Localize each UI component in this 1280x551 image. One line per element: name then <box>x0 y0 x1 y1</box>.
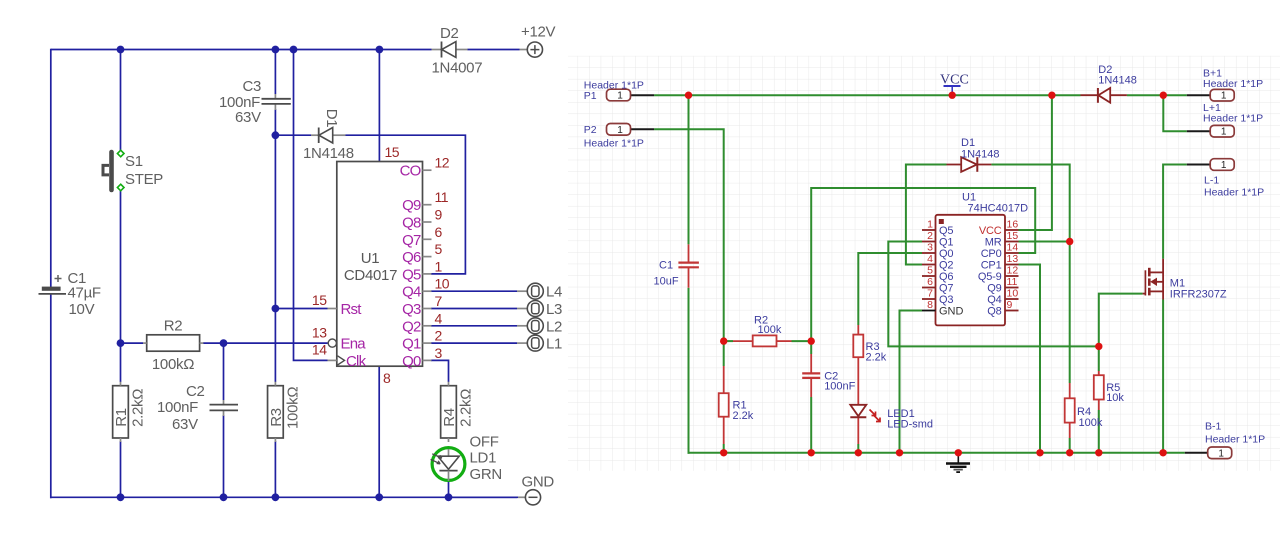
junction (275.4,49.5) <box>272 46 280 54</box>
ground GND <box>518 474 554 505</box>
junction (120.5,49.5) <box>117 46 125 54</box>
svg-text:8: 8 <box>383 370 391 386</box>
svg-text:Q3: Q3 <box>402 301 421 318</box>
pin 13 CP1 <box>981 253 1019 272</box>
svg-text:L1: L1 <box>546 336 562 353</box>
wire CP0 net <box>811 188 1035 341</box>
wire R4 bottom <box>1069 438 1071 453</box>
wire top rail <box>51 49 432 51</box>
svg-text:1N4007: 1N4007 <box>432 60 483 77</box>
svg-text:1: 1 <box>1221 91 1227 102</box>
wire R1 bottom <box>723 444 725 453</box>
svg-text:100kΩ: 100kΩ <box>284 387 301 429</box>
svg-text:4: 4 <box>927 253 933 265</box>
capacitor C3 <box>219 78 291 126</box>
junction (1163.3,95.2) <box>1160 92 1167 99</box>
wire LED to rail <box>857 444 859 453</box>
diode D2 1N4148 <box>1081 64 1137 103</box>
resistor R5 10k <box>1094 371 1125 410</box>
pin 3 Q0 <box>402 345 442 370</box>
svg-text:12: 12 <box>1007 265 1019 277</box>
wire MR node to R4 <box>1069 242 1071 384</box>
svg-text:100kΩ: 100kΩ <box>152 356 194 373</box>
wire Q1 to L1 <box>431 342 517 344</box>
resistor R2 <box>143 318 204 374</box>
wire R1 top <box>723 341 725 366</box>
pin 12 Q5-9 <box>978 265 1019 284</box>
resistor R3 <box>268 382 302 442</box>
svg-text:Q6: Q6 <box>939 271 953 283</box>
wire S1 bottom to R1/R2 node <box>120 191 122 344</box>
wire B+ to L+1 <box>1163 95 1187 131</box>
svg-text:Q5: Q5 <box>402 266 421 283</box>
svg-text:Q5-9: Q5-9 <box>978 271 1002 283</box>
wire pin8 GND to rail <box>900 311 923 453</box>
lead header right <box>1187 130 1210 132</box>
svg-text:Q9: Q9 <box>987 283 1001 295</box>
junction (1069.7,452.8) <box>1066 449 1073 456</box>
svg-text:GND: GND <box>939 306 964 318</box>
pin 8 GND <box>922 299 964 318</box>
wire D1 left <box>275 134 311 136</box>
svg-text:D1: D1 <box>323 109 340 128</box>
svg-text:1: 1 <box>1221 127 1227 138</box>
wire Q3 to L3 <box>431 308 517 310</box>
svg-text:CP1: CP1 <box>981 260 1002 272</box>
svg-text:Q5: Q5 <box>939 225 953 237</box>
wire R2 right <box>792 340 812 342</box>
junction (1040,452.8) <box>1036 449 1043 456</box>
wire C2 bottom <box>810 397 812 453</box>
svg-text:R2: R2 <box>164 318 183 335</box>
junction (379.4,49.5) <box>376 46 384 54</box>
connector B-1 Header 1*1P <box>1205 421 1265 460</box>
wire S1 top <box>120 50 122 151</box>
wire C2 bottom <box>223 415 225 497</box>
pin 14 CP0 <box>981 242 1019 261</box>
svg-text:Header 1*1P: Header 1*1P <box>584 138 644 150</box>
svg-text:100k: 100k <box>1079 417 1103 429</box>
lead header B-1 <box>1185 452 1208 454</box>
wire R2 right <box>203 342 224 344</box>
svg-text:GND: GND <box>522 474 555 491</box>
svg-text:Q9: Q9 <box>402 197 421 214</box>
ground <box>946 453 970 472</box>
svg-text:C1: C1 <box>659 260 673 272</box>
svg-text:1: 1 <box>1221 160 1227 171</box>
wire P2 to R1/R2 node <box>654 129 724 341</box>
junction (688.5,95.2) <box>685 92 692 99</box>
wire C1 column <box>688 95 690 244</box>
svg-text:L2: L2 <box>546 318 562 335</box>
pin 15 VDD top <box>385 144 400 160</box>
wire pin8 to rail <box>378 366 380 497</box>
junction (1051.9,95.2) <box>1048 92 1055 99</box>
wire pin13 CP1 to rail <box>1019 265 1041 453</box>
pin 10 Q4 <box>402 276 450 301</box>
lead header right <box>1187 94 1210 96</box>
resistor R1 <box>113 382 147 442</box>
svg-text:15: 15 <box>385 144 400 160</box>
svg-text:CD4017: CD4017 <box>344 267 397 284</box>
svg-text:VCC: VCC <box>940 73 969 88</box>
svg-text:100k: 100k <box>758 324 782 336</box>
junction (952.2,95.2) <box>949 92 956 99</box>
wire VDD pin vertical <box>378 49 380 162</box>
svg-text:Q1: Q1 <box>939 237 953 249</box>
connector P2 Header 1*1P <box>584 124 644 150</box>
junction (275.4,308.5) <box>272 305 280 313</box>
svg-text:Header 1*1P: Header 1*1P <box>1204 187 1264 199</box>
svg-text:3: 3 <box>927 242 933 254</box>
svg-text:7: 7 <box>435 293 443 309</box>
wire M1 source to rail <box>1162 300 1164 453</box>
svg-text:7: 7 <box>927 288 933 300</box>
svg-text:Header 1*1P: Header 1*1P <box>1203 113 1263 125</box>
svg-text:100nF: 100nF <box>157 399 198 416</box>
svg-text:2.2kΩ: 2.2kΩ <box>130 389 147 427</box>
svg-text:15: 15 <box>312 292 327 308</box>
wire Q4 to L4 <box>431 290 517 292</box>
wire GND lead <box>449 496 519 498</box>
svg-text:Q4: Q4 <box>402 284 421 301</box>
resistor R1 2.2k <box>719 366 754 444</box>
svg-text:Q6: Q6 <box>402 249 421 266</box>
svg-text:14: 14 <box>312 342 327 358</box>
switch S1 STEP <box>103 150 163 191</box>
svg-text:1: 1 <box>617 91 623 102</box>
wire Q2 to L2 <box>431 325 517 327</box>
wire C3 top <box>274 50 276 95</box>
diode D1 1N4148 <box>947 137 1000 172</box>
svg-text:C3: C3 <box>243 78 262 95</box>
pin 2 Q1 <box>922 230 953 249</box>
pin 5 Q6 <box>922 265 953 284</box>
junction (899.5,452.8) <box>896 449 903 456</box>
pin 1 Q5 <box>402 258 442 283</box>
pin 4 Q2 <box>922 253 953 272</box>
junction (811.2,341.1) <box>808 337 815 344</box>
junction (223.5,497.3) <box>220 493 228 501</box>
svg-text:Header 1*1P: Header 1*1P <box>1205 434 1265 446</box>
svg-text:Q1: Q1 <box>402 336 421 353</box>
svg-text:8: 8 <box>927 299 933 311</box>
svg-text:Q4: Q4 <box>987 294 1001 306</box>
LED1 LED-smd <box>850 405 933 445</box>
svg-text:Q8: Q8 <box>987 306 1001 318</box>
svg-text:63V: 63V <box>172 416 198 433</box>
svg-text:Q2: Q2 <box>402 318 421 335</box>
svg-text:10: 10 <box>435 276 450 292</box>
wire C2 top <box>810 341 812 354</box>
svg-text:1N4148: 1N4148 <box>303 145 354 162</box>
capacitor C1 10uF <box>654 244 699 287</box>
svg-text:1: 1 <box>435 258 443 274</box>
pin 8 bottom <box>383 370 391 386</box>
junction (275.4,497.3) <box>272 493 280 501</box>
pin 5 Q6 <box>402 241 442 266</box>
transistor M1 IRFR2307Z <box>1143 259 1227 301</box>
resistor R4 100k <box>1065 383 1103 438</box>
connector L3 <box>517 301 562 319</box>
connector L+1 Header 1*1P <box>1203 102 1263 138</box>
capacitor C1 <box>39 270 101 318</box>
connector P1 Header 1*1P <box>584 80 644 103</box>
pin 13 Ena <box>312 325 366 353</box>
svg-text:R4: R4 <box>441 408 458 427</box>
wire pin16 VCC <box>1019 95 1052 230</box>
svg-text:1: 1 <box>927 219 933 231</box>
svg-text:U1: U1 <box>361 250 380 267</box>
pin 10 Q4 <box>987 288 1018 307</box>
pin 9 Q8 <box>402 207 442 232</box>
junction (120.5,343.1) <box>117 339 125 347</box>
wire D1 right to Q5 <box>346 135 466 274</box>
svg-text:L3: L3 <box>546 301 562 318</box>
svg-text:5: 5 <box>927 265 933 277</box>
junction (723.7,452.8) <box>720 449 727 456</box>
wire D1 cathode to MR node <box>991 165 1069 242</box>
svg-text:P2: P2 <box>584 124 597 136</box>
svg-text:14: 14 <box>1007 242 1019 254</box>
wire L-1 to M1 drain <box>1163 165 1187 259</box>
svg-text:VCC: VCC <box>979 225 1002 237</box>
svg-text:LED-smd: LED-smd <box>887 419 933 431</box>
svg-text:2.2k: 2.2k <box>733 410 754 422</box>
wire R3 bottom <box>274 441 276 497</box>
wire Rst pin <box>275 308 327 310</box>
svg-text:C2: C2 <box>186 383 205 400</box>
svg-text:10uF: 10uF <box>654 276 679 288</box>
pin 11 Q9 <box>987 276 1018 295</box>
svg-text:4: 4 <box>435 310 443 326</box>
connector L1 <box>517 335 562 353</box>
svg-text:74HC4017D: 74HC4017D <box>968 203 1029 215</box>
wire Q1 to gate node <box>888 242 1099 347</box>
wire C3 bottom to node <box>274 109 276 135</box>
svg-text:10V: 10V <box>69 301 95 318</box>
wire Rst net vertical <box>274 135 276 382</box>
junction (1069.7,241.5) <box>1066 238 1073 245</box>
svg-text:2: 2 <box>927 230 933 242</box>
wire D2 to B+1 <box>1127 94 1187 96</box>
svg-text:1: 1 <box>617 125 623 136</box>
pin 16 VCC <box>979 219 1019 238</box>
junction (723.7,341.1) <box>720 337 727 344</box>
svg-text:CO: CO <box>400 163 421 180</box>
wire R5 bottom <box>1098 410 1100 453</box>
connector L2 <box>517 318 562 336</box>
wire Q0 to R3 <box>858 253 922 325</box>
grid background <box>568 56 1280 471</box>
lead header left <box>631 128 654 130</box>
wire LED to rail <box>448 481 450 497</box>
wire D2 right to +12V <box>467 49 519 51</box>
svg-text:L-1: L-1 <box>1204 175 1219 187</box>
svg-text:13: 13 <box>1007 253 1019 265</box>
svg-text:9: 9 <box>1007 299 1013 311</box>
resistor R4 <box>441 382 475 442</box>
pin 1 Q5 <box>922 219 953 238</box>
svg-text:Ena: Ena <box>341 336 367 353</box>
capacitor C2 100nF <box>802 354 855 397</box>
svg-text:10: 10 <box>1007 288 1019 300</box>
pin 7 Q3 <box>402 293 442 318</box>
wire bottom rail <box>50 496 517 498</box>
pin 12 CO <box>400 155 450 180</box>
op IC U1 74HC4017D body <box>936 192 1029 326</box>
svg-text:IRFR2307Z: IRFR2307Z <box>1170 289 1227 301</box>
svg-text:9: 9 <box>435 207 443 223</box>
svg-text:Rst: Rst <box>341 301 363 318</box>
junction (448.5,497.3) <box>445 493 453 501</box>
svg-text:63V: 63V <box>235 109 261 126</box>
wire left rail lower <box>50 294 52 498</box>
wire R2 left <box>121 342 144 344</box>
svg-text:15: 15 <box>1007 230 1019 242</box>
svg-text:R1: R1 <box>113 408 130 427</box>
svg-text:Q7: Q7 <box>939 283 953 295</box>
svg-text:13: 13 <box>312 325 327 341</box>
svg-text:5: 5 <box>435 241 443 257</box>
svg-text:Q0: Q0 <box>939 248 953 260</box>
wire Q0 to R4 <box>431 360 449 382</box>
svg-text:2.2k: 2.2k <box>866 352 887 364</box>
pin 6 Q7 <box>402 224 442 249</box>
svg-text:12: 12 <box>435 155 450 171</box>
svg-text:+12V: +12V <box>521 24 556 41</box>
svg-text:6: 6 <box>435 224 443 240</box>
pin 3 Q0 <box>922 242 953 261</box>
junction (293.5,49.5) <box>290 46 298 54</box>
wire C2 top <box>223 343 225 400</box>
svg-text:MR: MR <box>985 237 1002 249</box>
svg-text:3: 3 <box>435 345 443 361</box>
diode D2 1N4007 <box>432 25 483 77</box>
svg-text:2.2kΩ: 2.2kΩ <box>458 389 475 427</box>
op IC U1 CD4017 body <box>337 162 423 367</box>
wire R1 top <box>120 343 122 382</box>
svg-text:D1: D1 <box>961 137 975 149</box>
lead header right <box>1187 164 1210 166</box>
junction (1098.8,346.4) <box>1095 343 1102 350</box>
pin 9 Q8 <box>987 299 1018 318</box>
connector L-1 Header 1*1P <box>1204 159 1264 199</box>
wire Clk net <box>294 49 328 361</box>
svg-text:CP0: CP0 <box>981 248 1002 260</box>
pin 2 Q1 <box>402 328 442 353</box>
junction (275.4,135.2) <box>272 131 280 139</box>
junction (379.2,497.3) <box>375 493 383 501</box>
svg-text:R3: R3 <box>268 408 285 427</box>
pin 15 Rst <box>312 292 362 318</box>
svg-text:P1: P1 <box>584 90 597 102</box>
svg-text:16: 16 <box>1007 219 1019 231</box>
lead header left <box>631 94 654 96</box>
pin 7 Q3 <box>922 288 953 307</box>
svg-text:10k: 10k <box>1106 392 1124 404</box>
svg-text:L4: L4 <box>546 284 562 301</box>
svg-text:Q2: Q2 <box>939 260 953 272</box>
wire Q2 to D1 anode <box>906 165 947 265</box>
svg-text:6: 6 <box>927 276 933 288</box>
svg-text:47µF: 47µF <box>68 285 101 302</box>
resistor R2 100k <box>733 315 792 347</box>
svg-text:OFF: OFF <box>470 434 499 451</box>
svg-text:B-1: B-1 <box>1205 421 1222 433</box>
svg-text:1N4148: 1N4148 <box>1098 75 1137 87</box>
pin 15 MR <box>985 230 1019 249</box>
+12V supply symbol <box>520 24 556 58</box>
junction (858.3,452.8) <box>855 449 862 456</box>
junction (120.5,497.3) <box>117 493 125 501</box>
wire Ena net <box>224 342 328 344</box>
connector B+1 Header 1*1P <box>1203 68 1263 102</box>
wire VCC rail (P1 to D2) <box>654 94 1080 96</box>
connector L4 <box>517 283 562 301</box>
svg-text:Clk: Clk <box>346 353 367 370</box>
svg-text:Q0: Q0 <box>402 353 421 370</box>
wire gate net <box>1099 294 1143 371</box>
svg-text:S1: S1 <box>125 153 143 170</box>
wire R1 bottom <box>120 441 122 497</box>
svg-text:11: 11 <box>1007 276 1018 288</box>
junction (958.3,452.8) <box>955 449 962 456</box>
net label VCC <box>940 73 969 96</box>
pin 6 Q7 <box>922 276 953 295</box>
svg-text:GRN: GRN <box>470 466 502 483</box>
junction (223.5,343.1) <box>220 339 228 347</box>
svg-text:LD1: LD1 <box>470 450 497 467</box>
svg-text:11: 11 <box>435 189 449 205</box>
svg-text:1N4148: 1N4148 <box>961 149 1000 161</box>
svg-text:100nF: 100nF <box>824 381 855 393</box>
svg-text:1: 1 <box>1218 448 1224 459</box>
svg-text:STEP: STEP <box>125 171 163 188</box>
pin 14 Clk <box>312 342 367 370</box>
svg-text:2: 2 <box>435 328 443 344</box>
svg-text:D2: D2 <box>440 25 459 42</box>
resistor R3 2.2k <box>853 325 886 405</box>
wire left rail upper <box>50 49 52 287</box>
wire pin15 MR <box>1019 241 1070 243</box>
LED LD1 GRN <box>431 434 502 484</box>
svg-text:Q8: Q8 <box>402 215 421 232</box>
junction (1098.8,452.8) <box>1095 449 1102 456</box>
capacitor C2 <box>157 383 238 433</box>
wire C1 to bottom rail <box>688 288 690 454</box>
diode D1 1N4148 <box>303 109 354 162</box>
svg-text:Header 1*1P: Header 1*1P <box>1203 78 1263 90</box>
svg-text:Q7: Q7 <box>402 232 421 249</box>
pin 4 Q2 <box>402 310 442 335</box>
svg-text:Q3: Q3 <box>939 294 953 306</box>
pin 11 Q9 <box>402 189 449 214</box>
wire bottom rail <box>688 452 1185 454</box>
junction (811.2,452.8) <box>808 449 815 456</box>
junction (1163.1,452.8) <box>1159 449 1166 456</box>
wire R2 left <box>724 340 733 342</box>
